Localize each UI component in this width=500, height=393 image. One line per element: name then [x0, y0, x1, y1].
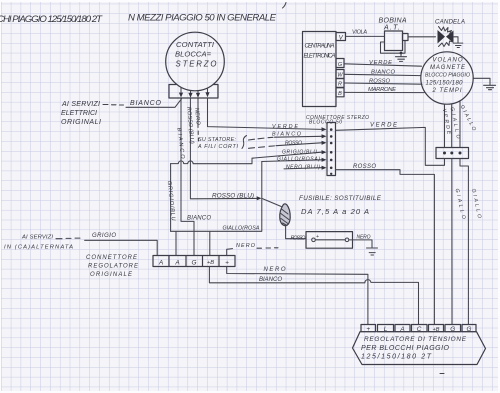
connettore sterzo blocco 50 strip	[327, 123, 336, 176]
giallo(rosa) net: vertical at 261.8 + bottom horizontal + stubs to A2,+B	[171, 162, 262, 256]
svg-text:AI SERVIZI: AI SERVIZI	[61, 101, 100, 108]
candela ground	[453, 37, 463, 48]
svg-text:ELETTRICI: ELETTRICI	[61, 110, 97, 117]
volano magnete circle	[421, 52, 473, 104]
svg-text:IN (CA)ALTERNATA: IN (CA)ALTERNATA	[4, 244, 73, 250]
svg-text:BIANCO: BIANCO	[187, 216, 211, 222]
svg-text:G: G	[338, 62, 343, 68]
dashes to bianco	[103, 104, 124, 107]
svg-text:BIANCO: BIANCO	[272, 132, 302, 138]
svg-text:NERO (BLU): NERO (BLU)	[286, 164, 320, 170]
svg-text:ORIGINALI: ORIGINALI	[61, 119, 101, 126]
svg-text:W: W	[337, 73, 343, 79]
svg-text:A: A	[158, 259, 163, 266]
svg-text:NERO: NERO	[236, 243, 256, 249]
ground (bobina)	[396, 53, 407, 61]
nero wire from + to regolatore +	[227, 267, 368, 325]
svg-text:ORIGINALE: ORIGINALE	[90, 272, 133, 278]
rosso(blu) vertical wire from lock	[190, 98, 258, 198]
volano giallo wire 2 down	[459, 101, 461, 148]
rosso wire	[344, 83, 422, 84]
verde wire centralina-volano	[344, 64, 422, 66]
pins G W R B	[336, 59, 344, 68]
bianco wire	[344, 74, 421, 75]
wire stubs with arrows into box	[181, 88, 208, 94]
svg-text:+B: +B	[207, 260, 214, 266]
bobina HT pin	[403, 34, 409, 41]
connector box under steering lock	[169, 85, 218, 99]
svg-text:SU STATORE:: SU STATORE:	[198, 137, 237, 143]
svg-text:BLOCCO PIAGGIO: BLOCCO PIAGGIO	[425, 73, 470, 79]
svg-text:VIOLA: VIOLA	[352, 30, 367, 36]
pin V	[336, 33, 346, 41]
nero wire to ground	[349, 240, 372, 247]
fuse diagonal from junction	[262, 198, 281, 206]
svg-text:GIALLO(ROSA: GIALLO(ROSA	[223, 226, 260, 232]
HT lead to candela	[408, 36, 436, 38]
svg-text:MAGNETE: MAGNETE	[430, 65, 466, 71]
svg-text:CENTRALINA: CENTRALINA	[305, 44, 335, 50]
svg-text:ROSSO: ROSSO	[291, 236, 307, 242]
rosso wire connettore sterzo to +B	[336, 170, 435, 325]
svg-text:N MEZZI PIAGGIO 50 IN GENERALE: N MEZZI PIAGGIO 50 IN GENERALE	[128, 13, 277, 24]
svg-text:ROSSO (BLU): ROSSO (BLU)	[212, 193, 254, 200]
svg-text:REGOLATORE DI TENSIONE: REGOLATORE DI TENSIONE	[364, 336, 467, 343]
svg-text:BIANCO: BIANCO	[130, 100, 162, 107]
svg-text:2 TEMPI: 2 TEMPI	[432, 88, 462, 94]
marrone wire	[344, 91, 424, 93]
fusibile (teardrop with hatching)	[280, 204, 291, 226]
ground (fuse box)	[367, 248, 378, 255]
svg-text:VERDE: VERDE	[369, 60, 392, 66]
svg-text:+: +	[316, 234, 319, 240]
verde return wire to connettore sterzo	[336, 127, 445, 165]
svg-text:B: B	[338, 91, 342, 97]
svg-text:125/150/180: 125/150/180	[426, 81, 464, 87]
svg-text:GIALLO(ROSA): GIALLO(ROSA)	[277, 156, 320, 162]
dashes before grigio	[56, 237, 80, 240]
svg-text:ELETTRONICA: ELETTRONICA	[304, 54, 336, 60]
wire fuse to holder box	[286, 226, 306, 239]
stray pen mark	[283, 3, 287, 9]
svg-text:ROSSO: ROSSO	[285, 140, 302, 146]
regolatore terminal strip + L A C +B G G	[361, 325, 376, 332]
grigio/blu vertical + label	[170, 164, 172, 232]
svg-text:BIANCO: BIANCO	[259, 277, 282, 283]
svg-text:A FILI CORTI: A FILI CORTI	[197, 144, 239, 150]
svg-text:NERO: NERO	[264, 267, 286, 273]
svg-text:PER BLOCCHI PIAGGIO: PER BLOCCHI PIAGGIO	[361, 345, 450, 352]
svg-text:BLOCCA=: BLOCCA=	[175, 50, 212, 59]
bobina secondary loop	[381, 41, 406, 54]
verde wire from lock to connettore sterzo	[208, 98, 322, 129]
bianco wire to services	[126, 99, 182, 108]
bianco wire from +B to regolatore C (hops over nero vertical)	[209, 267, 418, 325]
viola wire	[346, 35, 385, 37]
nero dash-dot from + cell	[227, 249, 233, 256]
svg-text:G: G	[191, 259, 196, 266]
bianco vertical wire from lock	[181, 98, 194, 255]
fuse holder box	[306, 232, 353, 249]
svg-text:BLOCCO 50: BLOCCO 50	[309, 119, 342, 125]
svg-text:AI SERVIZI: AI SERVIZI	[21, 234, 53, 240]
svg-text:CONNETTORE: CONNETTORE	[86, 255, 138, 261]
junction dot	[400, 52, 403, 55]
svg-text:ROSSO: ROSSO	[353, 164, 376, 170]
svg-text:ROSSO: ROSSO	[369, 79, 390, 85]
stray mark bottom	[440, 373, 444, 375]
giallo wire to regolatore G	[451, 159, 453, 325]
svg-text:REGOLATORE: REGOLATORE	[88, 264, 139, 270]
steering-lock contacts circle	[166, 32, 225, 91]
pin5 wire giallo(rosa)	[262, 160, 322, 162]
bianco stator wire to pin2	[275, 135, 322, 138]
svg-text:GRIGIO: GRIGIO	[92, 233, 116, 239]
rosso stator wire to pin3	[276, 143, 322, 146]
arrows into connettore sterzo	[322, 127, 327, 169]
giallo wire 2 to regolatore G	[460, 159, 468, 325]
svg-text:FUSIBILE: SOSTITUIBILE: FUSIBILE: SOSTITUIBILE	[299, 195, 382, 202]
grigio wire from left	[85, 240, 158, 255]
centralina elettronica box	[303, 32, 337, 107]
pin6 wire nero(blu)	[284, 168, 322, 169]
brace	[242, 136, 247, 149]
arrow rosso(blu)	[257, 196, 262, 200]
svg-text:BOBINA: BOBINA	[379, 18, 407, 25]
svg-text:A: A	[174, 259, 179, 266]
grigio/blu wire: hops over bianco+rosso, up corner, to pin4	[171, 152, 322, 164]
svg-text:CONTATTI: CONTATTI	[176, 40, 215, 49]
svg-text:+: +	[225, 259, 229, 266]
svg-text:STERZO: STERZO	[176, 60, 217, 69]
regolatore body	[353, 332, 486, 365]
svg-text:VOLANO: VOLANO	[433, 58, 463, 64]
svg-text:MARRONE: MARRONE	[368, 87, 396, 93]
svg-text:GRIGIO/BLU: GRIGIO/BLU	[282, 149, 317, 155]
3-pin connector under volano	[436, 148, 469, 159]
svg-text:CHI PIAGGIO 125/150/180 2T: CHI PIAGGIO 125/150/180 2T	[0, 14, 103, 25]
svg-text:R: R	[338, 81, 342, 87]
nero vertical wire from lock (fades to dashes)	[197, 98, 199, 141]
volano verde wire down	[444, 104, 446, 148]
svg-text:BIANCO: BIANCO	[371, 70, 395, 76]
ground (volano)	[473, 78, 495, 89]
svg-text:DA 7,5 A a 20 A: DA 7,5 A a 20 A	[301, 207, 369, 216]
svg-text:CANDELA: CANDELA	[435, 19, 465, 26]
volano giallo wire down	[451, 104, 453, 148]
old regulator connector strip A A G +B +	[153, 256, 235, 267]
dashed stator leads	[249, 137, 275, 148]
